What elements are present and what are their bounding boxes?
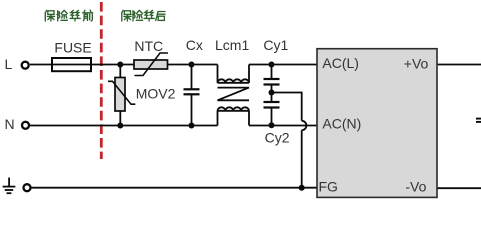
- svg-text:NTC: NTC: [134, 38, 163, 54]
- svg-text:Lcm1: Lcm1: [215, 37, 249, 53]
- svg-text:AC(N): AC(N): [322, 116, 361, 132]
- svg-text:Cy2: Cy2: [265, 129, 290, 145]
- svg-text:MOV2: MOV2: [136, 86, 176, 102]
- svg-text:-Vo: -Vo: [405, 178, 426, 194]
- svg-text:FG: FG: [319, 178, 338, 194]
- svg-text:FUSE: FUSE: [54, 39, 91, 55]
- svg-text:Cy1: Cy1: [263, 37, 288, 53]
- svg-text:AC(L): AC(L): [322, 55, 359, 71]
- svg-text:Cx: Cx: [186, 37, 203, 53]
- svg-text:N: N: [5, 116, 15, 132]
- svg-text:+Vo: +Vo: [404, 56, 429, 72]
- svg-text:L: L: [5, 56, 13, 72]
